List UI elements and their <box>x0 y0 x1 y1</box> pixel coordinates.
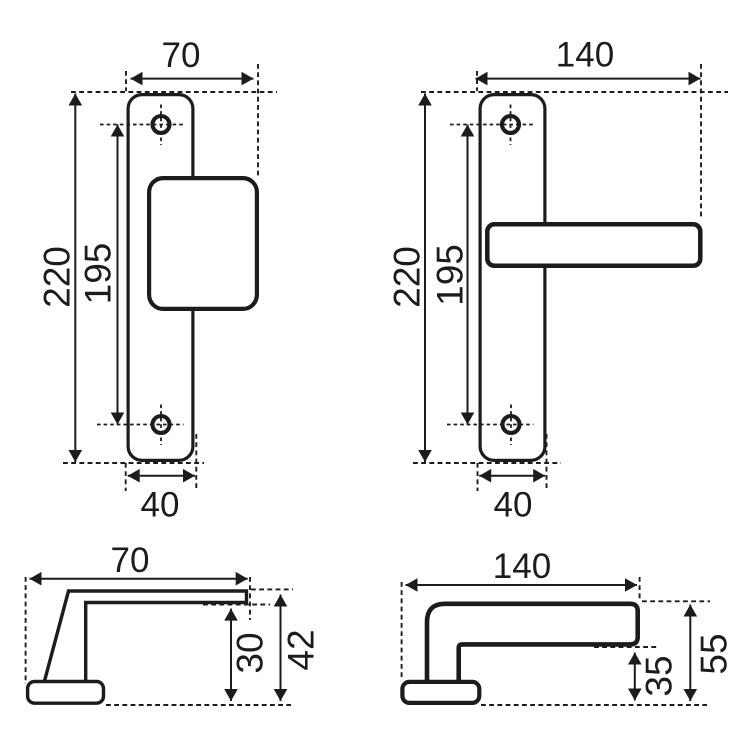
svg-text:40: 40 <box>494 486 533 525</box>
extension dashed horizontal top-right BL <box>251 588 293 590</box>
svg-text:55: 55 <box>693 633 734 674</box>
svg-text:40: 40 <box>141 486 180 525</box>
extension dashed vertical bottom-right TR <box>546 434 548 491</box>
dimension 195 TR line <box>461 125 475 425</box>
rosette base BL <box>28 682 104 704</box>
dimension 35 BR line <box>628 653 642 701</box>
extension dashed top horizontal TR <box>421 91 728 93</box>
dimension 30 BL line <box>224 609 238 701</box>
backplate TR <box>480 95 545 461</box>
extension dashed vertical plate-left TR <box>476 71 478 91</box>
crosshair bottom hole TL vertical <box>160 405 162 446</box>
dimension 55 BR line <box>684 605 698 702</box>
crosshair top hole TR vertical <box>510 105 512 146</box>
svg-text:220: 220 <box>386 246 427 308</box>
extension dashed vertical bottom-left TL <box>125 463 127 491</box>
extension dashed vertical knob-right TL <box>257 64 259 176</box>
extension dashed vertical bottom-left TR <box>477 463 479 491</box>
bottom hole TL <box>153 416 170 433</box>
bottom hole TR <box>503 416 520 433</box>
extension dashed vertical lever-right TR <box>700 64 702 218</box>
knob TL <box>149 178 257 309</box>
dimension 195 TL line <box>111 125 125 425</box>
svg-text:220: 220 <box>36 246 77 308</box>
extension dashed bottom horizontal TR <box>413 462 561 464</box>
dimension 70 TL line <box>131 72 254 86</box>
dimension 40 TL line <box>128 469 195 483</box>
extension dashed vertical left BR <box>401 582 403 679</box>
extension dashed horizontal top-right BR <box>642 600 710 602</box>
crosshair bottom hole TR vertical <box>510 405 512 446</box>
svg-text:195: 195 <box>429 244 470 306</box>
top hole TR <box>502 116 519 133</box>
svg-text:140: 140 <box>556 36 614 75</box>
handle side profile BR <box>427 604 638 681</box>
svg-text:42: 42 <box>280 629 321 670</box>
extension dashed horizontal bottom BL <box>106 704 291 706</box>
rosette base BR <box>402 682 479 703</box>
extension dashed vertical right BL <box>249 577 251 620</box>
svg-text:140: 140 <box>493 547 551 586</box>
extension dashed vertical left BL <box>25 577 27 684</box>
dimension 42 BL line <box>274 595 288 702</box>
handle side profile BL <box>45 591 247 681</box>
extension dashed vertical bottom-right TL <box>195 434 197 491</box>
crosshair bottom hole TL horizontal <box>97 424 184 426</box>
dimension 220 TL line <box>69 94 83 463</box>
svg-text:30: 30 <box>230 632 271 673</box>
crosshair top hole TR horizontal <box>450 124 534 126</box>
crosshair bottom hole TR horizontal <box>447 424 534 426</box>
extension dashed horizontal mid BR <box>594 646 659 648</box>
top hole TL <box>153 116 170 133</box>
lever TR <box>487 224 700 265</box>
crosshair top hole TL horizontal <box>100 124 184 126</box>
extension dashed horizontal bottom BR <box>481 704 707 706</box>
extension dashed horizontal mid BL <box>203 604 270 606</box>
crosshair top hole TL vertical <box>160 105 162 146</box>
dimension 40 TR line <box>479 469 545 483</box>
svg-text:195: 195 <box>77 243 118 305</box>
backplate TL <box>128 95 193 461</box>
svg-text:70: 70 <box>162 36 201 75</box>
svg-text:35: 35 <box>638 655 679 696</box>
svg-text:70: 70 <box>111 541 150 580</box>
dimension 140 TR line <box>476 72 701 86</box>
dimension 140 BR line <box>406 578 638 592</box>
extension dashed bottom horizontal TL <box>63 462 204 464</box>
dimension 70 BL line <box>30 572 248 586</box>
extension dashed vertical plate-left TL <box>125 71 127 91</box>
extension dashed top horizontal TL <box>71 91 277 93</box>
extension dashed vertical right BR <box>639 577 641 600</box>
dimension 220 TR line <box>418 94 432 463</box>
